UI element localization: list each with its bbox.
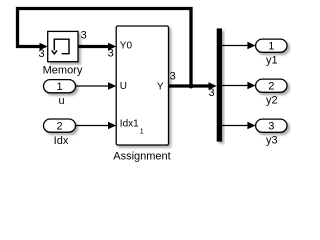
svg-text:2: 2: [56, 120, 62, 132]
svg-text:3: 3: [209, 87, 215, 99]
svg-text:Y: Y: [157, 82, 164, 93]
svg-text:Idx: Idx: [54, 135, 69, 147]
wire bar to outport y3: [222, 125, 249, 127]
svg-text:y2: y2: [266, 95, 278, 107]
svg-text:3: 3: [268, 121, 274, 133]
memory block Memory: [48, 31, 78, 61]
wire bar to outport y2: [222, 85, 249, 87]
svg-text:Y0: Y0: [120, 41, 133, 52]
arrowhead into Y0: [108, 43, 116, 51]
wire Idx to Idx1: [76, 125, 110, 127]
arrowhead into y2: [247, 82, 255, 90]
svg-text:3: 3: [170, 70, 176, 82]
svg-text:Assignment: Assignment: [113, 150, 170, 162]
wire feedback loop (3-wide bus from Y back to Memory): [18, 9, 192, 87]
svg-text:y1: y1: [266, 55, 278, 67]
arrowhead into y3: [247, 122, 255, 130]
arrowhead into Memory: [40, 43, 48, 51]
svg-text:1: 1: [56, 81, 62, 93]
svg-text:1: 1: [140, 126, 144, 135]
inport 1 oval: [44, 80, 76, 93]
svg-text:Memory: Memory: [43, 64, 83, 76]
arrowhead into y1: [247, 42, 255, 50]
assignment block Assignment: [116, 26, 168, 145]
svg-text:Idx1: Idx1: [120, 118, 139, 129]
outport 2 oval: [256, 79, 287, 92]
inport 2 oval: [44, 119, 76, 132]
svg-text:y3: y3: [266, 135, 278, 147]
memory icon: [54, 39, 69, 54]
outport 3 oval: [256, 119, 287, 132]
svg-text:3: 3: [108, 48, 114, 60]
arrowhead into U: [108, 82, 116, 90]
svg-text:2: 2: [268, 81, 274, 93]
wire u to U: [76, 85, 110, 87]
svg-text:3: 3: [81, 30, 87, 42]
wire Y output to Demux bar: [169, 84, 211, 87]
outport 1 oval: [256, 39, 287, 52]
svg-text:U: U: [120, 81, 127, 92]
demux bar: [217, 28, 222, 141]
node junction at Y branch: [189, 84, 194, 89]
arrowhead into bar: [209, 82, 217, 90]
wire bar to outport y1: [222, 45, 249, 47]
svg-text:u: u: [58, 95, 64, 107]
wire Memory to Assignment Y0: [78, 45, 109, 48]
arrowhead into Idx1: [108, 122, 116, 130]
svg-text:1: 1: [268, 41, 274, 53]
svg-text:3: 3: [39, 48, 45, 60]
